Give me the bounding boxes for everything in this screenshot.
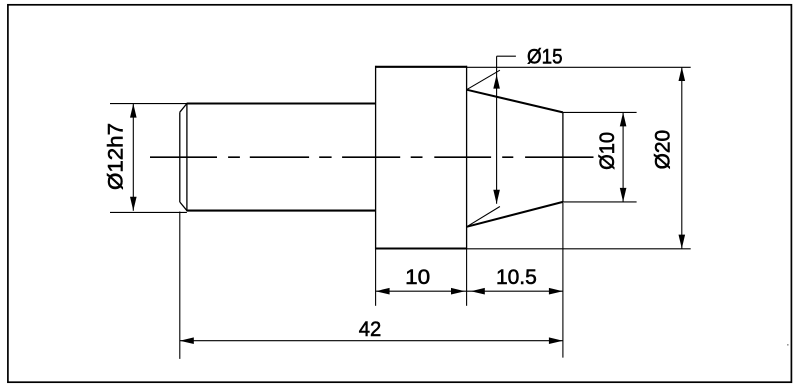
svg-text:10: 10 [405,266,430,289]
centerline (dash-dot axis) [150,156,594,158]
cone top edge [467,90,563,113]
dimension 10 right arrowhead [451,288,465,295]
dimension 42 right extension line [562,203,564,358]
shaft Ø12 top edge [187,102,376,104]
chamfer top diagonal [180,104,187,113]
dimension 10.5 dimension line [467,290,563,292]
dimension 10.5 right arrowhead [549,288,563,295]
dimension 42 dimension line [180,340,563,342]
dimension Ø10 bottom extension line [563,201,637,203]
svg-text:Ø15: Ø15 [527,45,563,68]
dimension 10.5 left arrowhead [471,288,485,295]
dimension Ø20 up arrowhead [679,67,686,81]
flange Ø20 bottom edge [376,247,467,249]
flange Ø20 top edge [376,66,467,68]
svg-text:Ø20: Ø20 [652,130,675,170]
dimension Ø10 down arrowhead [620,188,627,202]
dimension Ø15 top oblique extension line [467,70,500,90]
flange Ø20 left edge [375,66,377,250]
dimension Ø15 leader [497,55,516,57]
dimension Ø15 down arrowhead [493,190,500,204]
dimension 10 left arrowhead [376,288,390,295]
svg-text:Ø10: Ø10 [596,132,619,170]
dimension Ø10 up arrowhead [620,112,627,126]
shaft left end face [179,112,181,202]
dimension Ø20 down arrowhead [679,235,686,249]
dimension 10/10.5 shared extension line [466,250,468,306]
dimension Ø12h7 top arrowhead [130,104,137,118]
svg-text:42: 42 [359,318,382,341]
dimension Ø20 bottom extension line [467,248,691,250]
dimension Ø12h7 bottom arrowhead [130,197,137,211]
dimension Ø12h7 bottom extension line [110,211,187,213]
dimension 10 left extension line [375,250,377,306]
dimension Ø15 bottom oblique extension line [467,207,500,227]
cone bottom edge [467,202,563,227]
dimension Ø20 top extension line [467,66,691,68]
dimension Ø12h7 dimension line [132,104,134,211]
svg-text:10.5: 10.5 [496,266,537,289]
shaft Ø12 bottom edge [187,210,376,212]
faint artifact dot [787,344,789,346]
right end face Ø10 [562,112,564,201]
flange Ø20 right edge [466,66,468,250]
dimension 42 left arrowhead [180,337,194,344]
svg-text:Ø12h7: Ø12h7 [104,123,127,190]
shaft chamfer transition edge [186,103,188,212]
dimension Ø12h7 top extension line [110,103,187,105]
dimension Ø15 up arrowhead [493,75,500,89]
dimension 10 dimension line [376,290,467,292]
dimension Ø15 dimension line [496,56,498,204]
dimension Ø20 dimension line [681,67,683,249]
dimension Ø10 top extension line [563,111,637,113]
chamfer bottom diagonal [180,202,187,211]
dimension Ø10 dimension line [622,112,624,201]
dimension 42 right arrowhead [549,337,563,344]
dimension 42 left extension line [179,212,181,359]
